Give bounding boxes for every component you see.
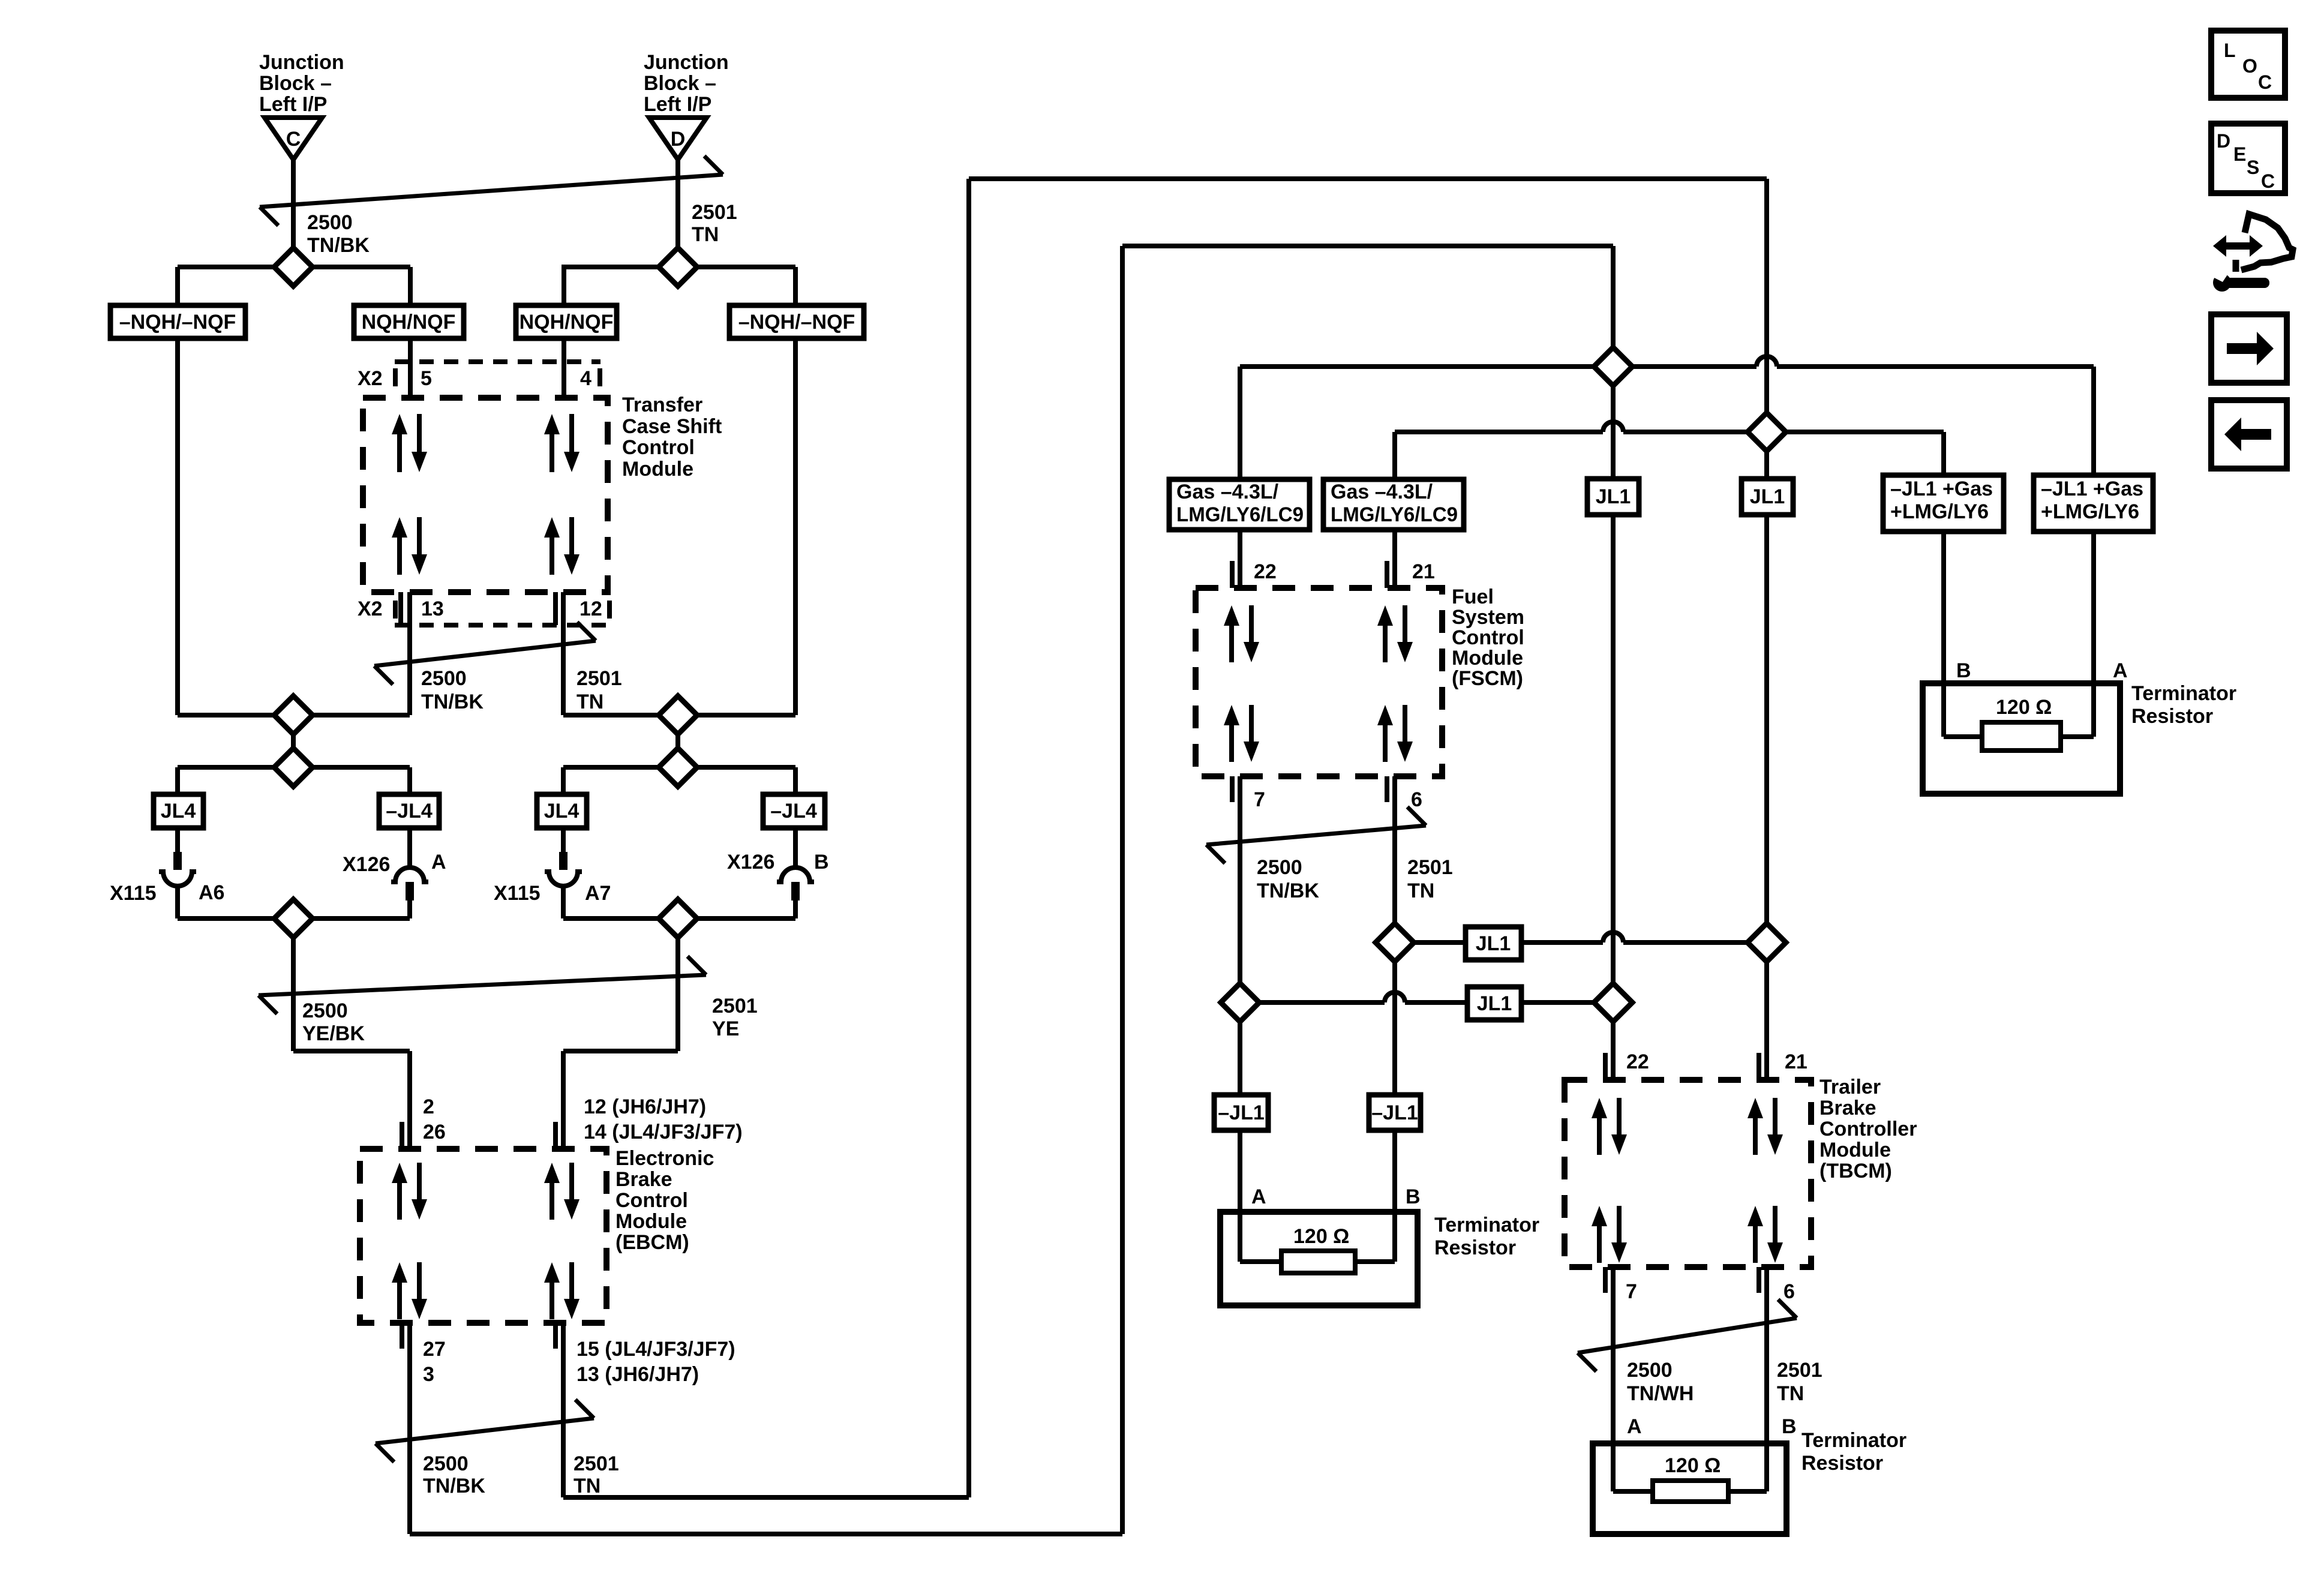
- splice row C right wire: [563, 916, 795, 921]
- TBCM pin stub ticks bottom: [1603, 1267, 1608, 1293]
- svg-text:2500: 2500: [1627, 1359, 1673, 1382]
- TCSCM serial data arrows upper left: [397, 431, 402, 472]
- option box JL1 mid lower: [1467, 987, 1521, 1020]
- svg-text:–NQH/–NQF: –NQH/–NQF: [738, 311, 855, 334]
- svg-text:Control: Control: [1452, 626, 1524, 649]
- riser 2500 up to second rail: [1120, 246, 1125, 1534]
- option box -NQH/-NQF left: [110, 305, 245, 338]
- wire down to JL4 box left: [175, 767, 180, 794]
- svg-text:3: 3: [423, 1363, 434, 1386]
- wire drop from fourth rail to -JL1+Gas box 1: [1941, 432, 1946, 475]
- option box Gas -4.3L/LMG/LY6/LC9 first: [1169, 479, 1310, 530]
- option box JL1 right second: [1742, 479, 1793, 515]
- inline connector X126 pin A: [391, 867, 428, 882]
- svg-text:X126: X126: [727, 851, 774, 873]
- svg-text:X2: X2: [358, 367, 383, 390]
- pin 13 stub tick: [398, 592, 403, 625]
- EBCM serial data arrows upper left: [397, 1179, 402, 1220]
- pin 12 stub tick: [553, 592, 558, 625]
- connector X2 top dashed row: [395, 359, 600, 364]
- option box JL4 left: [154, 794, 203, 828]
- svg-text:Terminator: Terminator: [1801, 1429, 1906, 1452]
- wire Gas box 2 to FSCM pin 21: [1392, 530, 1397, 588]
- svg-text:B: B: [1782, 1415, 1797, 1438]
- splice on riser 2689 at JL1 rail: [1594, 983, 1632, 1022]
- junction block triangle C: [265, 118, 322, 160]
- svg-text:A: A: [2113, 659, 2128, 682]
- TBCM serial data arrows upper right: [1753, 1115, 1758, 1155]
- off-page slash crossing wires below TCSCM: [374, 641, 596, 666]
- svg-text:NQH/NQF: NQH/NQF: [362, 311, 456, 334]
- EBCM pin stub ticks bottom: [400, 1323, 404, 1349]
- wire EBCM pin 27 down to bottom rail: [407, 1323, 412, 1534]
- off-page slash below FSCM: [1206, 825, 1426, 845]
- svg-text:Module: Module: [1452, 647, 1523, 670]
- Electronic Brake Control Module dashed box: [360, 1149, 606, 1323]
- wire JL4 left to connector X115 A6: [175, 828, 180, 852]
- svg-text:A7: A7: [585, 882, 611, 905]
- svg-text:5: 5: [421, 367, 432, 390]
- wire splice S8 down jog upper part: [675, 918, 680, 1051]
- splice S6: [659, 748, 697, 786]
- wire down to -JL4 box right: [793, 767, 798, 794]
- splice on riser 2945 at fourth rail: [1747, 413, 1786, 451]
- svg-text:22: 22: [1254, 560, 1277, 583]
- TCSCM serial data arrows lower right: [550, 534, 554, 575]
- splice S4: [659, 696, 697, 734]
- junction block triangle D: [649, 118, 707, 160]
- wire drop from third rail to -JL1+Gas box 2: [2091, 367, 2096, 475]
- svg-text:14 (JL4/JF3/JF7): 14 (JL4/JF3/JF7): [584, 1121, 743, 1143]
- svg-text:Resistor: Resistor: [1801, 1452, 1883, 1475]
- FSCM pin stub ticks bottom: [1230, 776, 1235, 802]
- wire Gas box 1 to FSCM pin 22: [1238, 530, 1242, 588]
- option box JL1 mid upper: [1466, 927, 1521, 960]
- option box JL4 right: [537, 794, 587, 828]
- svg-text:Module: Module: [622, 458, 693, 481]
- FSCM serial data arrows lower right: [1383, 722, 1388, 762]
- option box -JL1 +Gas +LMG/LY6 second: [2034, 475, 2153, 532]
- stub between splices right: [675, 715, 680, 767]
- svg-text:TN/BK: TN/BK: [307, 234, 370, 257]
- svg-text:22: 22: [1626, 1050, 1649, 1073]
- svg-text:Brake: Brake: [1819, 1097, 1876, 1119]
- svg-text:Controller: Controller: [1819, 1118, 1917, 1140]
- terminator resistor right outer box: [1923, 683, 2120, 794]
- wire -JL4 right to connector X126 B: [793, 828, 798, 867]
- svg-text:System: System: [1452, 606, 1524, 629]
- svg-text:–JL1: –JL1: [1218, 1101, 1265, 1124]
- svg-text:TN: TN: [1777, 1382, 1804, 1405]
- wire down to -JL4 box left: [407, 767, 412, 794]
- svg-text:E: E: [2233, 143, 2246, 165]
- inline connector X115 pin A6: [173, 852, 182, 870]
- option box -JL1 second: [1369, 1095, 1421, 1130]
- svg-text:B: B: [1956, 659, 1971, 682]
- svg-text:7: 7: [1626, 1280, 1637, 1303]
- wire EBCM pin 15 down to upper bottom rail: [561, 1323, 566, 1497]
- bottom rail 2501 to riser: [563, 1495, 969, 1500]
- EBCM serial data arrows upper right: [550, 1179, 554, 1220]
- option box NQH/NQF left: [354, 305, 464, 338]
- wire -JL1 box 2 down into terminator: [1392, 1130, 1397, 1262]
- svg-text:TN/WH: TN/WH: [1627, 1382, 1694, 1405]
- wire TBCM pin 7 down to terminator: [1611, 1267, 1616, 1443]
- wire FSCM pin 7 down to -JL1 box 1: [1238, 776, 1242, 1095]
- svg-text:Block –: Block –: [259, 72, 332, 95]
- EBCM serial data arrows lower right: [550, 1279, 554, 1319]
- wire TBCM pin 6 down to terminator: [1764, 1267, 1769, 1443]
- option box JL1 right first: [1587, 479, 1639, 515]
- riser 2945 from top rail to JL1 box: [1764, 179, 1769, 479]
- wire FSCM pin 6 down to -JL1 box 2: [1392, 776, 1397, 1095]
- svg-text:120 Ω: 120 Ω: [1665, 1454, 1721, 1477]
- splice row C left wire: [178, 916, 410, 921]
- svg-text:S: S: [2247, 157, 2259, 178]
- wire -NQH/-NQF right down to splice row A: [793, 338, 798, 715]
- wire below X115 A7 to splice row C: [561, 886, 566, 918]
- TBCM serial data arrows lower right: [1753, 1223, 1758, 1263]
- svg-text:2501: 2501: [712, 995, 758, 1017]
- Fuel System Control Module dashed box: [1196, 588, 1442, 776]
- svg-text:2501: 2501: [692, 201, 737, 224]
- svg-text:Case Shift: Case Shift: [622, 415, 722, 438]
- svg-text:TN: TN: [1407, 879, 1434, 902]
- svg-text:Gas –4.3L/: Gas –4.3L/: [1331, 481, 1433, 503]
- svg-text:6: 6: [1783, 1280, 1795, 1303]
- svg-text:A: A: [1627, 1415, 1642, 1438]
- svg-text:Terminator: Terminator: [1434, 1214, 1539, 1236]
- svg-text:2500: 2500: [423, 1452, 469, 1475]
- off-page slash below TBCM: [1578, 1318, 1797, 1353]
- terminator resistor tbcm element: [1653, 1481, 1728, 1502]
- svg-text:D: D: [2217, 130, 2230, 152]
- top rail wire 2501: [969, 176, 1767, 181]
- splice S3: [274, 696, 313, 734]
- svg-text:+LMG/LY6: +LMG/LY6: [2041, 500, 2139, 523]
- wire down to JL4 box right: [561, 767, 566, 794]
- wire drop to Gas box 2: [1392, 432, 1397, 479]
- wire -NQH/-NQF left down to splice row A: [175, 338, 180, 715]
- off-page slash below EBCM: [376, 1418, 594, 1443]
- terminator resistor mid element: [1281, 1251, 1355, 1273]
- terminator resistor tbcm internal wires: [1611, 1443, 1616, 1491]
- svg-text:TN/BK: TN/BK: [1257, 879, 1319, 902]
- EBCM serial data arrows lower left: [397, 1279, 402, 1319]
- wire drop to NQH/NQF box 1: [408, 267, 413, 305]
- svg-text:Terminator: Terminator: [2131, 682, 2236, 705]
- icon diagnostic double arrow: [2213, 235, 2263, 257]
- svg-text:Resistor: Resistor: [1434, 1236, 1516, 1259]
- svg-text:TN: TN: [577, 691, 603, 713]
- Transfer Case Shift Control Module dashed box: [363, 398, 608, 592]
- svg-text:27: 27: [423, 1338, 446, 1361]
- svg-text:Block –: Block –: [644, 72, 716, 95]
- svg-text:O: O: [2242, 55, 2257, 77]
- svg-text:Brake: Brake: [615, 1168, 672, 1191]
- icon arrow right box: [2211, 314, 2287, 383]
- wire from triangle D down to splice S2: [675, 160, 680, 267]
- svg-text:2500: 2500: [307, 211, 353, 234]
- svg-text:JL1: JL1: [1477, 992, 1512, 1015]
- wire splice S7 jog to EBCM pin 2: [293, 1049, 410, 1053]
- JL1 rail upper with JL1 box: [1395, 940, 1466, 945]
- FSCM serial data arrows lower left: [1229, 722, 1234, 762]
- svg-text:C: C: [286, 128, 301, 151]
- svg-text:26: 26: [423, 1121, 446, 1143]
- svg-text:JL1: JL1: [1476, 932, 1511, 955]
- svg-text:(TBCM): (TBCM): [1819, 1160, 1892, 1182]
- svg-text:Resistor: Resistor: [2131, 705, 2213, 728]
- fourth rail wire to -JL1+Gas box 1: [1395, 430, 1603, 434]
- option box -NQH/-NQF right: [729, 305, 864, 338]
- wire splice S8 jog to EBCM pin 12: [563, 1049, 678, 1053]
- option box -JL1 +Gas +LMG/LY6 first: [1883, 475, 2004, 532]
- svg-text:6: 6: [1411, 788, 1422, 811]
- off-page slash crossing wires 2500/2501 at top: [260, 175, 723, 207]
- svg-text:JL1: JL1: [1750, 485, 1785, 508]
- icon wrench: [2213, 274, 2231, 292]
- svg-text:2501: 2501: [577, 667, 622, 690]
- svg-text:13: 13: [421, 598, 444, 620]
- svg-text:Module: Module: [615, 1210, 687, 1233]
- icon DESC box: [2211, 124, 2285, 193]
- splice on riser 2945 at JL1 rail: [1747, 923, 1786, 962]
- third rail wire to -JL1+Gas box 2: [1240, 364, 1756, 369]
- icon LOC box: [2211, 31, 2285, 98]
- splice on riser 2689 at third rail: [1594, 347, 1632, 386]
- svg-text:Junction: Junction: [259, 51, 344, 74]
- svg-text:TN: TN: [692, 223, 719, 246]
- svg-text:X2: X2: [358, 598, 383, 620]
- second rail wire 2500: [1122, 244, 1613, 248]
- svg-text:LMG/LY6/LC9: LMG/LY6/LC9: [1331, 503, 1458, 526]
- Trailer Brake Controller Module dashed box: [1565, 1080, 1811, 1267]
- svg-text:12 (JH6/JH7): 12 (JH6/JH7): [584, 1095, 706, 1118]
- svg-text:2: 2: [423, 1095, 434, 1118]
- wire below X126 A to splice row C: [407, 900, 412, 918]
- splice S7: [274, 899, 313, 938]
- svg-text:120 Ω: 120 Ω: [1996, 696, 2052, 719]
- icon diagnostic vehicle outline: [2241, 214, 2293, 270]
- wire drop to -NQH/-NQF box 1: [175, 267, 180, 305]
- riser 2501 up to top rail: [966, 179, 971, 1497]
- svg-text:(EBCM): (EBCM): [615, 1231, 689, 1254]
- wire JL4 right to connector X115 A7: [561, 828, 566, 852]
- svg-text:4: 4: [580, 367, 591, 390]
- TCSCM serial data arrows lower left: [397, 534, 402, 575]
- svg-text:15 (JL4/JF3/JF7): 15 (JL4/JF3/JF7): [577, 1338, 735, 1361]
- svg-text:TN: TN: [574, 1475, 600, 1497]
- svg-text:Transfer: Transfer: [622, 394, 702, 416]
- icon arrow left box: [2211, 400, 2287, 469]
- svg-text:B: B: [814, 851, 829, 873]
- svg-text:B: B: [1406, 1185, 1421, 1208]
- svg-text:A: A: [431, 851, 446, 873]
- terminator resistor mid internal wires: [1238, 1212, 1242, 1262]
- svg-text:Control: Control: [615, 1189, 688, 1212]
- FSCM serial data arrows upper left: [1229, 622, 1234, 662]
- svg-text:NQH/NQF: NQH/NQF: [520, 311, 614, 334]
- FSCM serial data arrows upper right: [1383, 622, 1388, 662]
- splice S8: [659, 899, 697, 938]
- horizontal wire row through splice S1: [178, 265, 410, 269]
- wire -JL1+Gas box 2 down to right terminator A: [2091, 532, 2096, 683]
- svg-text:Left I/P: Left I/P: [644, 93, 711, 116]
- FSCM pin stub ticks top: [1230, 561, 1235, 588]
- svg-text:2500: 2500: [302, 999, 348, 1022]
- splice on 2501 wire at JL1 rail: [1376, 923, 1414, 962]
- inline connector X115 pin A7: [559, 852, 568, 870]
- svg-text:JL1: JL1: [1596, 485, 1631, 508]
- terminator resistor tbcm outer box: [1593, 1443, 1786, 1534]
- svg-text:2501: 2501: [1407, 856, 1453, 879]
- EBCM pin stub ticks top: [400, 1122, 404, 1149]
- svg-text:Trailer: Trailer: [1819, 1076, 1881, 1098]
- option box NQH/NQF right: [516, 305, 617, 338]
- splice row A right wire: [563, 713, 795, 718]
- svg-text:Junction: Junction: [644, 51, 729, 74]
- terminator resistor right element: [1982, 722, 2061, 751]
- svg-text:–JL1: –JL1: [1371, 1101, 1418, 1124]
- wire below X115 A6 to splice row C: [175, 886, 180, 918]
- wire -JL1 box 1 down into terminator: [1238, 1130, 1242, 1262]
- option box -JL1 first: [1214, 1095, 1268, 1130]
- TBCM serial data arrows lower left: [1597, 1223, 1602, 1263]
- svg-text:120 Ω: 120 Ω: [1293, 1225, 1349, 1248]
- splice S2: [659, 248, 697, 286]
- wire below X126 B to splice row C: [793, 900, 798, 918]
- riser 2689 from second rail to JL1 box: [1611, 246, 1616, 479]
- svg-text:–JL4: –JL4: [770, 800, 817, 822]
- svg-text:C: C: [2258, 71, 2272, 93]
- svg-text:12: 12: [580, 598, 602, 620]
- splice S5: [274, 748, 313, 786]
- svg-text:2501: 2501: [1777, 1359, 1822, 1382]
- splice row B left wire: [178, 765, 410, 770]
- terminator resistor right internal wires: [1941, 683, 1946, 737]
- svg-text:Fuel: Fuel: [1452, 586, 1494, 608]
- off-page slash crossing wires 2500 YE/BK 2501 YE: [259, 975, 706, 995]
- option box Gas -4.3L/LMG/LY6/LC9 second: [1323, 479, 1464, 530]
- svg-text:A: A: [1251, 1185, 1266, 1208]
- svg-text:YE/BK: YE/BK: [302, 1022, 365, 1045]
- stub between splices left: [291, 715, 296, 767]
- svg-text:C: C: [2261, 170, 2275, 192]
- riser 2945 from JL1 box down to TBCM pin 21: [1764, 515, 1769, 1080]
- svg-text:2501: 2501: [574, 1452, 619, 1475]
- wire drop to Gas box 1: [1238, 367, 1242, 479]
- svg-text:TN/BK: TN/BK: [423, 1475, 485, 1497]
- svg-text:Left I/P: Left I/P: [259, 93, 327, 116]
- option box -JL4 right: [763, 794, 825, 828]
- wire drop to -NQH/-NQF box 2: [793, 267, 798, 305]
- svg-text:(FSCM): (FSCM): [1452, 667, 1523, 690]
- svg-text:A6: A6: [199, 881, 224, 904]
- TBCM serial data arrows upper left: [1597, 1115, 1602, 1155]
- svg-text:D: D: [671, 128, 686, 151]
- svg-text:Gas –4.3L/: Gas –4.3L/: [1176, 481, 1279, 503]
- icon diagnostic outline tail: [2233, 260, 2239, 272]
- bottom rail 2500 to riser: [410, 1532, 1122, 1536]
- splice row B right wire: [563, 765, 795, 770]
- wire -JL4 left to connector X126 A: [407, 828, 412, 867]
- svg-text:2500: 2500: [421, 667, 467, 690]
- svg-text:–NQH/–NQF: –NQH/–NQF: [119, 311, 236, 334]
- horizontal wire row through splice S2: [562, 265, 795, 269]
- svg-text:JL4: JL4: [544, 800, 580, 822]
- svg-text:–JL4: –JL4: [386, 800, 433, 822]
- svg-text:L: L: [2224, 40, 2236, 61]
- TCSCM serial data arrows upper right: [550, 431, 554, 472]
- wire NQH/NQF into TCSCM pin 4: [562, 338, 566, 398]
- wire TCSCM pin 13 down to splice row A: [407, 592, 412, 715]
- inline connector X126 pin B: [777, 867, 814, 882]
- svg-text:21: 21: [1785, 1050, 1807, 1073]
- wire from triangle C down to splice S1: [291, 160, 296, 267]
- terminator resistor mid outer box: [1220, 1212, 1418, 1305]
- svg-text:LMG/LY6/LC9: LMG/LY6/LC9: [1176, 503, 1304, 526]
- TBCM pin stub ticks top: [1603, 1053, 1608, 1080]
- splice S1: [274, 248, 313, 286]
- svg-text:Module: Module: [1819, 1139, 1891, 1161]
- svg-text:X115: X115: [494, 882, 541, 905]
- svg-text:13 (JH6/JH7): 13 (JH6/JH7): [577, 1363, 699, 1386]
- option box -JL4 left: [379, 794, 439, 828]
- wire drop to NQH/NQF box 2: [562, 267, 566, 305]
- svg-text:–JL1 +Gas: –JL1 +Gas: [2041, 478, 2143, 500]
- svg-text:21: 21: [1412, 560, 1435, 583]
- svg-text:X126: X126: [343, 853, 390, 876]
- svg-text:+LMG/LY6: +LMG/LY6: [1890, 500, 1989, 523]
- wire -JL1+Gas box 1 down to right terminator B: [1941, 532, 1946, 683]
- svg-text:YE: YE: [712, 1017, 739, 1040]
- svg-text:TN/BK: TN/BK: [421, 691, 484, 713]
- riser 2689 from JL1 box down to TBCM pin 22: [1611, 515, 1616, 1080]
- svg-text:–JL1 +Gas: –JL1 +Gas: [1890, 478, 1993, 500]
- svg-text:Control: Control: [622, 436, 695, 459]
- svg-text:Electronic: Electronic: [615, 1147, 714, 1170]
- svg-text:2500: 2500: [1257, 856, 1302, 879]
- wire NQH/NQF into TCSCM pin 5: [408, 338, 413, 398]
- svg-text:JL4: JL4: [161, 800, 196, 822]
- svg-text:7: 7: [1254, 788, 1265, 811]
- splice on 2500 wire at JL1 rail: [1221, 983, 1259, 1022]
- svg-text:X115: X115: [110, 882, 157, 905]
- JL1 rail lower with JL1 box: [1240, 1000, 1385, 1005]
- splice row A left wire: [178, 713, 410, 718]
- wire TCSCM pin 12 down to splice row A: [561, 592, 566, 715]
- wire splice S7 down jog upper part: [291, 918, 296, 1051]
- connector X2 bottom dashed row: [395, 623, 610, 628]
